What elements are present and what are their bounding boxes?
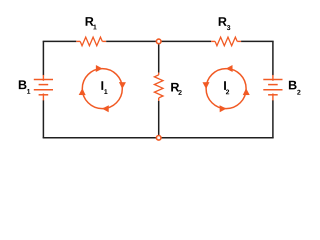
wire: left branch upper (corner to B1): [42, 41, 44, 75]
I2 loop circle: [206, 69, 246, 109]
battery plate short 1 (-): [268, 84, 278, 86]
R3 zigzag: [215, 37, 237, 46]
battery plate short 1 (-): [39, 84, 49, 86]
label B2: [289, 81, 297, 90]
battery top stub: [272, 75, 274, 81]
node A (top junction): [156, 39, 161, 44]
I1 arrow left (pointing up): [79, 88, 86, 95]
resistor R3: [211, 37, 241, 46]
resistor R1: [76, 37, 106, 46]
mesh current loop I2 (counterclockwise): [202, 65, 249, 112]
R2 lead top: [158, 73, 160, 75]
R2 zigzag: [154, 75, 163, 98]
label R3: [219, 17, 227, 26]
R2 lead bottom: [158, 98, 160, 101]
battery plate long 1 (+): [263, 79, 282, 81]
label R2: [171, 83, 179, 92]
battery plate long 2 (+): [34, 89, 53, 91]
wire: R3 to top-right corner: [241, 40, 274, 42]
battery B2: [263, 75, 282, 101]
wire: top-left corner to R1: [43, 40, 77, 42]
R3 lead right: [237, 40, 241, 42]
wire: node A to R2: [158, 44, 160, 73]
I1 arrow right (pointing down): [119, 82, 126, 89]
label I1: [101, 81, 103, 90]
label I2: [224, 81, 226, 90]
wire: R2 to node B: [158, 101, 160, 135]
battery plate long 1 (+): [34, 79, 53, 81]
battery bottom stub: [272, 94, 274, 101]
battery top stub: [42, 75, 44, 81]
wire: right branch upper (corner to B2): [272, 41, 274, 75]
wire: R1 to node A: [106, 40, 159, 42]
I2 arrow right (pointing up): [243, 88, 250, 95]
wire: left branch lower (B1 to corner): [42, 100, 44, 137]
I1 loop circle: [82, 69, 122, 109]
R1 zigzag: [80, 37, 102, 46]
I2 arrow top (pointing left): [226, 65, 233, 72]
I2 arrow left (pointing down): [202, 82, 209, 89]
I1 arrow top (pointing right): [96, 65, 103, 72]
battery plate long 2 (+): [263, 89, 282, 91]
R1 lead left: [76, 40, 80, 42]
battery bottom stub: [42, 94, 44, 101]
wire: bottom rail: [43, 137, 274, 139]
I2 arrow bottom (pointing right): [220, 105, 227, 112]
battery plate short 2 (-): [268, 94, 278, 96]
resistor R2: [154, 73, 163, 101]
battery B1: [34, 75, 53, 101]
node B (bottom junction): [156, 136, 161, 141]
wire: right branch lower (B2 to corner): [272, 100, 274, 137]
label B1: [19, 80, 27, 89]
I1 arrow bottom (pointing left): [102, 105, 109, 112]
R3 lead left: [211, 40, 215, 42]
label R1: [86, 17, 94, 26]
mesh current loop I1 (clockwise): [79, 65, 126, 112]
battery plate short 2 (-): [39, 94, 49, 96]
R1 lead right: [102, 40, 106, 42]
wire: node A to R3: [159, 40, 212, 42]
